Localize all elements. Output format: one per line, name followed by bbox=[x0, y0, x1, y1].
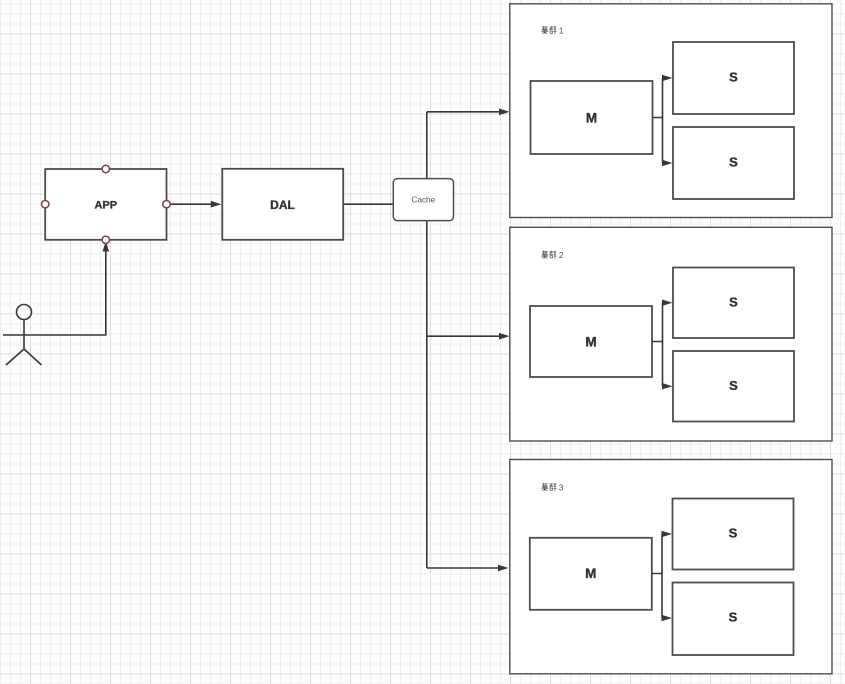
connection point right of APP bbox=[163, 201, 170, 208]
wire actor to APP bbox=[45, 241, 109, 335]
slave S2a box bbox=[673, 268, 794, 339]
svg-text:S: S bbox=[729, 70, 738, 85]
DAL box bbox=[222, 169, 343, 240]
svg-text:S: S bbox=[729, 155, 738, 170]
actor (stick figure user) bbox=[3, 305, 45, 366]
label cluster2 bbox=[541, 250, 564, 260]
svg-text:M: M bbox=[585, 566, 596, 581]
svg-text:S: S bbox=[729, 294, 738, 309]
connection point top of APP bbox=[102, 165, 109, 172]
label cluster3 bbox=[541, 482, 564, 492]
slave S1b box bbox=[673, 127, 794, 199]
trunk vertical wire bbox=[426, 112, 428, 568]
cluster1 box bbox=[510, 4, 832, 218]
APP box bbox=[45, 169, 166, 240]
master M1 box bbox=[531, 81, 653, 154]
slave S1a box bbox=[673, 42, 794, 114]
slave S2b box bbox=[673, 351, 794, 422]
wire M3 to S boxes bbox=[652, 531, 673, 621]
master M2 box bbox=[530, 306, 652, 377]
wire trunk to cluster3 bbox=[427, 565, 509, 572]
svg-text:S: S bbox=[729, 378, 738, 393]
master M3 box bbox=[530, 538, 652, 610]
svg-text:Cache: Cache bbox=[411, 194, 435, 204]
svg-text:M: M bbox=[585, 335, 596, 350]
svg-text:1: 1 bbox=[559, 25, 564, 35]
slave S3b box bbox=[673, 583, 794, 656]
wire APP to DAL bbox=[171, 201, 222, 208]
cluster3 box bbox=[510, 460, 832, 674]
connection point bottom of APP bbox=[102, 236, 109, 243]
wire M2 to S boxes bbox=[652, 300, 673, 390]
cluster2 box bbox=[510, 227, 832, 441]
wire M1 to S boxes bbox=[653, 75, 673, 166]
svg-text:2: 2 bbox=[559, 250, 564, 260]
connection point left of APP bbox=[42, 201, 49, 208]
svg-text:APP: APP bbox=[94, 200, 117, 212]
slave S3a box bbox=[673, 499, 794, 570]
svg-text:S: S bbox=[729, 610, 738, 625]
label cluster1 bbox=[541, 25, 564, 35]
wire trunk to cluster2 bbox=[427, 333, 510, 340]
Cache box bbox=[393, 179, 453, 221]
svg-text:M: M bbox=[586, 111, 597, 126]
svg-text:DAL: DAL bbox=[270, 198, 295, 212]
wire DAL to Cache trunk bbox=[343, 203, 427, 205]
svg-text:3: 3 bbox=[559, 482, 564, 492]
svg-text:S: S bbox=[729, 526, 738, 541]
wire trunk to cluster1 bbox=[427, 109, 510, 116]
